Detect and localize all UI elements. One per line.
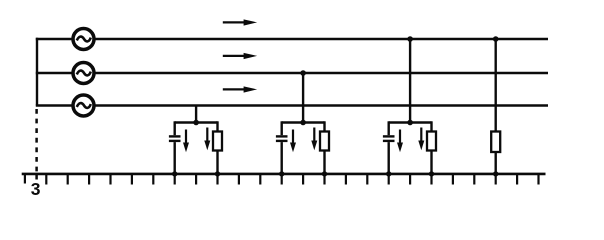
node junction dot — [300, 120, 306, 126]
current arrow down at R2 — [313, 128, 315, 143]
current arrow down at C3 — [399, 130, 401, 145]
node junction dot on L2 — [300, 70, 306, 76]
wire splitter — [389, 121, 432, 123]
wire resistor upper lead — [216, 121, 218, 131]
current arrow I3 above L3 — [223, 86, 257, 92]
wire resistor upper lead — [430, 121, 432, 131]
node earth connection dot — [493, 171, 498, 176]
wire capacitor lower lead — [388, 142, 390, 174]
node junction dot — [407, 120, 413, 126]
wire dashed link stub below earth bus — [35, 174, 38, 180]
wire feed from L1 — [409, 39, 411, 123]
wire phase line L3 (bottom bus) — [36, 104, 548, 106]
node junction dot on L1 — [407, 36, 413, 42]
capacitor C2 — [276, 135, 288, 137]
current arrow down at R1 — [206, 128, 208, 143]
node earth connection dots — [172, 171, 177, 176]
current arrow I2 above L2 — [223, 53, 257, 59]
RC load group 2 on L2 — [276, 70, 329, 176]
wire dashed neutral link to earth — [35, 109, 38, 174]
wire splitter — [175, 121, 218, 123]
svg-text:3: 3 — [31, 179, 41, 199]
wire left vertical bus joining sources — [36, 38, 38, 106]
wire capacitor upper lead — [173, 121, 175, 135]
resistor R4 — [491, 132, 500, 153]
wire feed from L2 — [302, 73, 304, 123]
resistor R1 — [213, 132, 222, 151]
resistor R2 — [320, 132, 329, 151]
wire capacitor upper lead — [281, 121, 283, 135]
node junction dot — [193, 120, 199, 126]
resistor branch R4 on L1 — [491, 36, 500, 176]
current arrow I1 above L1 — [223, 19, 257, 25]
capacitor C3 — [383, 135, 395, 137]
wire capacitor lower lead — [173, 142, 175, 174]
current arrow down at C1 — [185, 130, 187, 145]
ground hatch ticks — [25, 174, 539, 185]
ground earth bus — [22, 173, 546, 176]
current arrow down at C2 — [292, 130, 294, 145]
wire resistor upper lead — [323, 121, 325, 131]
wire resistor lower lead — [430, 151, 432, 175]
wire phase line L2 (middle bus) — [36, 72, 548, 74]
ac source G3 (bottom phase) — [73, 95, 94, 116]
wire splitter — [282, 121, 325, 123]
wire upper lead from L1 — [495, 39, 497, 132]
wire capacitor upper lead — [388, 121, 390, 135]
current arrow down at R3 — [420, 128, 422, 143]
node junction dot on L1 — [493, 36, 499, 42]
node earth connection dots — [279, 171, 284, 176]
ac source G2 (middle phase) — [73, 63, 94, 84]
ac source G1 (top phase) — [73, 29, 94, 50]
wire resistor lower lead — [323, 151, 325, 175]
node earth connection dots — [386, 171, 391, 176]
wire feed from L3 — [195, 106, 197, 123]
wire resistor lower lead — [216, 151, 218, 175]
resistor R3 — [427, 132, 436, 151]
RC load group 1 on L3 — [169, 106, 222, 177]
capacitor C1 — [169, 135, 181, 137]
RC load group 3 on L1 — [383, 36, 436, 176]
wire lower lead to earth — [495, 152, 497, 174]
wire capacitor lower lead — [281, 142, 283, 174]
wire phase line L1 (top bus) — [36, 38, 548, 40]
